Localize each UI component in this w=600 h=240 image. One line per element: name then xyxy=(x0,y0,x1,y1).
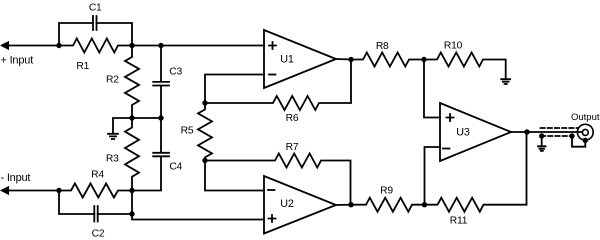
resistor R10 xyxy=(424,53,506,79)
U2 plus sign xyxy=(269,215,276,222)
resistor R1 xyxy=(59,39,132,53)
capacitor C3 xyxy=(153,46,169,119)
wire U2 - input xyxy=(205,161,264,191)
resistor R8 xyxy=(351,53,424,67)
connector outer circle xyxy=(577,124,593,140)
svg-text:C2: C2 xyxy=(92,229,105,240)
svg-text:R5: R5 xyxy=(181,126,194,137)
wire U3 + input xyxy=(424,60,440,118)
wire - input xyxy=(7,190,59,192)
node R2/R3 junction xyxy=(129,115,134,120)
wire top main to U1 + xyxy=(132,45,264,47)
wire C1 branch xyxy=(59,23,132,46)
arrow + input xyxy=(1,42,9,50)
node R5/R7 hub xyxy=(202,158,207,163)
wire shield ground stub xyxy=(541,136,543,146)
wire output to connector xyxy=(527,131,582,133)
svg-text:C4: C4 xyxy=(169,161,182,172)
svg-text:R7: R7 xyxy=(286,142,299,153)
capacitor C4 xyxy=(132,118,169,191)
node R5/R6 hub xyxy=(202,100,207,105)
wire + input xyxy=(7,45,59,47)
wire U3 output xyxy=(511,131,527,133)
node R1/C1/R2 xyxy=(129,43,134,48)
svg-text:R2: R2 xyxy=(106,75,119,86)
node connector barrel xyxy=(583,138,588,143)
svg-text:Output: Output xyxy=(571,112,600,123)
svg-text:C1: C1 xyxy=(89,3,102,14)
shield dashed lower xyxy=(541,135,572,137)
op-amp U2 xyxy=(264,176,336,234)
svg-text:+ Input: + Input xyxy=(1,55,34,67)
node - input junction xyxy=(56,188,61,193)
resistor R3 xyxy=(125,118,139,191)
svg-text:R8: R8 xyxy=(376,41,389,52)
shield dashed upper xyxy=(541,127,578,129)
svg-text:U3: U3 xyxy=(456,127,470,139)
svg-text:R11: R11 xyxy=(450,215,468,226)
ground after R10 xyxy=(501,79,510,84)
U3 minus sign xyxy=(443,148,450,150)
connector inner circle xyxy=(582,129,588,135)
wire U1 - input xyxy=(205,75,264,104)
node C3 tap xyxy=(158,43,163,48)
ground below R2 xyxy=(108,134,118,139)
resistor R4 xyxy=(59,184,132,198)
node R8/R10/U3+ junction xyxy=(421,57,426,62)
svg-text:R3: R3 xyxy=(106,154,119,165)
U3 plus sign xyxy=(447,114,454,121)
svg-text:R4: R4 xyxy=(91,170,104,181)
wire U2 output xyxy=(336,204,352,206)
node R3/R4 junction xyxy=(129,188,134,193)
svg-text:- Input: - Input xyxy=(1,172,31,184)
wire junction row xyxy=(113,118,161,133)
capacitor C2 xyxy=(94,206,97,222)
node + input junction xyxy=(56,43,61,48)
wire U1 output xyxy=(336,58,352,61)
svg-text:U2: U2 xyxy=(280,198,294,210)
svg-text:U1: U1 xyxy=(280,53,294,65)
svg-text:R1: R1 xyxy=(76,61,89,72)
wire C2 branch xyxy=(59,191,264,220)
node U2 output xyxy=(348,202,353,207)
op-amp U3 xyxy=(440,103,511,161)
resistor R6 xyxy=(205,60,351,111)
svg-text:R9: R9 xyxy=(380,185,393,196)
ground shield xyxy=(538,146,546,151)
U1 plus sign xyxy=(269,42,276,49)
wire U3 - input xyxy=(425,147,441,205)
resistor R2 xyxy=(125,46,139,119)
svg-text:C3: C3 xyxy=(169,67,182,78)
resistor R7 xyxy=(205,154,351,205)
node R9/R11/U3- junction xyxy=(422,202,427,207)
node U1 output xyxy=(348,57,353,62)
op-amp U1 xyxy=(264,30,336,88)
svg-text:R6: R6 xyxy=(286,113,299,124)
wire shield to connector barrel xyxy=(572,136,585,147)
resistor R5 xyxy=(198,103,212,161)
node C3/C4 junction xyxy=(158,115,163,120)
node shield to connector xyxy=(569,133,574,138)
U2 minus sign xyxy=(268,189,275,191)
arrow - input xyxy=(1,187,9,195)
resistor R11 xyxy=(425,132,527,212)
resistor R9 xyxy=(351,198,425,212)
U1 minus sign xyxy=(269,74,276,76)
svg-text:R10: R10 xyxy=(444,41,463,52)
node shield ground tap xyxy=(539,133,544,138)
capacitor C1 xyxy=(93,16,97,30)
node U3 output xyxy=(524,129,529,134)
node C2/wire junction xyxy=(129,211,134,216)
